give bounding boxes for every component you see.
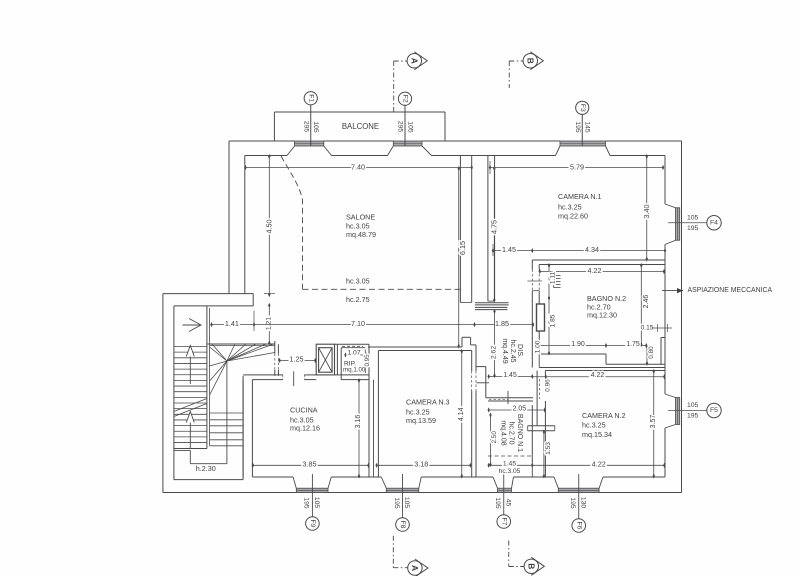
svg-text:mq.4.49: mq.4.49: [501, 338, 508, 363]
svg-text:F2: F2: [402, 95, 409, 103]
svg-text:1.21: 1.21: [265, 317, 272, 330]
svg-text:B: B: [526, 563, 536, 569]
svg-text:3.16: 3.16: [355, 415, 362, 429]
svg-text:B: B: [525, 58, 535, 64]
svg-text:0.15: 0.15: [641, 325, 654, 332]
svg-text:2.50: 2.50: [491, 431, 498, 444]
svg-text:mq.12.16: mq.12.16: [290, 424, 320, 433]
svg-text:A: A: [410, 565, 420, 571]
svg-text:hc.2.75: hc.2.75: [346, 295, 370, 304]
svg-text:105: 105: [687, 402, 699, 409]
svg-text:1.00: 1.00: [534, 340, 541, 353]
svg-text:hc.2.70: hc.2.70: [508, 422, 515, 445]
svg-text:BALCONE: BALCONE: [342, 122, 379, 131]
svg-text:130: 130: [579, 497, 586, 509]
svg-text:2.46: 2.46: [643, 295, 650, 309]
svg-text:1.45: 1.45: [503, 372, 517, 379]
svg-text:hc.3.25: hc.3.25: [558, 203, 582, 212]
svg-text:F9: F9: [309, 520, 316, 528]
svg-text:hc.3.05: hc.3.05: [499, 468, 521, 475]
svg-text:295: 295: [303, 121, 310, 133]
svg-text:hc.2.45: hc.2.45: [509, 340, 516, 363]
svg-text:mq.13.59: mq.13.59: [406, 416, 436, 425]
svg-text:hc.3.05: hc.3.05: [346, 277, 370, 286]
svg-text:105: 105: [403, 497, 410, 509]
svg-text:195: 195: [494, 497, 501, 509]
svg-text:1.75: 1.75: [626, 341, 640, 348]
svg-text:A: A: [409, 58, 419, 64]
svg-text:ASPIAZIONE MECCANICA: ASPIAZIONE MECCANICA: [688, 287, 773, 294]
svg-text:7.10: 7.10: [351, 319, 365, 328]
svg-text:0.80: 0.80: [648, 346, 655, 359]
svg-text:105: 105: [406, 121, 413, 133]
svg-text:0.95: 0.95: [364, 354, 371, 367]
svg-text:mq.15.34: mq.15.34: [582, 430, 612, 439]
svg-text:295: 295: [397, 121, 404, 133]
svg-text:1.11: 1.11: [549, 271, 556, 284]
svg-text:4.50: 4.50: [264, 220, 273, 234]
svg-text:mq.4.08: mq.4.08: [500, 420, 507, 445]
svg-text:mq.12.30: mq.12.30: [587, 310, 617, 319]
svg-text:CAMERA N.1: CAMERA N.1: [558, 192, 602, 201]
svg-text:1.85: 1.85: [495, 319, 509, 328]
svg-text:F1: F1: [307, 94, 314, 102]
svg-text:105: 105: [687, 215, 699, 222]
svg-text:3.18: 3.18: [414, 460, 428, 469]
svg-text:195: 195: [569, 497, 576, 509]
svg-text:F3: F3: [579, 104, 586, 112]
svg-text:2.05: 2.05: [513, 405, 527, 412]
svg-text:4.22: 4.22: [588, 266, 602, 275]
svg-text:2.62: 2.62: [490, 346, 497, 359]
svg-text:6.15: 6.15: [458, 241, 467, 255]
svg-text:h.2.30: h.2.30: [196, 464, 216, 473]
svg-text:mq.1.00: mq.1.00: [343, 367, 366, 374]
svg-text:45: 45: [504, 499, 511, 507]
svg-text:195: 195: [687, 225, 699, 232]
svg-text:F4: F4: [710, 219, 718, 226]
svg-text:195: 195: [303, 497, 310, 509]
svg-text:hc.3.25: hc.3.25: [582, 421, 606, 430]
svg-text:F6: F6: [575, 522, 582, 530]
svg-text:1.07: 1.07: [347, 349, 360, 356]
svg-text:mq.22.60: mq.22.60: [558, 212, 588, 221]
svg-text:4.34: 4.34: [585, 245, 599, 254]
svg-text:CAMERA N.3: CAMERA N.3: [406, 398, 450, 407]
svg-text:3.85: 3.85: [303, 460, 317, 469]
svg-text:195: 195: [574, 121, 581, 133]
svg-text:195: 195: [393, 497, 400, 509]
svg-text:3.40: 3.40: [642, 205, 651, 219]
svg-text:CUCINA: CUCINA: [290, 405, 318, 414]
svg-text:1.45: 1.45: [502, 245, 516, 254]
svg-text:5.79: 5.79: [570, 162, 584, 171]
svg-text:F8: F8: [399, 521, 406, 529]
svg-text:3.57: 3.57: [650, 415, 657, 429]
svg-text:1.41: 1.41: [225, 319, 239, 328]
svg-text:SALONE: SALONE: [346, 213, 375, 222]
svg-text:145: 145: [584, 121, 591, 133]
svg-text:1.85: 1.85: [549, 314, 556, 327]
svg-text:1.53: 1.53: [545, 442, 552, 455]
svg-text:195: 195: [687, 413, 699, 420]
svg-text:DIS.: DIS.: [516, 344, 525, 358]
svg-text:F5: F5: [710, 407, 718, 414]
svg-text:mq.48.79: mq.48.79: [346, 230, 376, 239]
svg-text:4.14: 4.14: [458, 407, 465, 421]
svg-text:105: 105: [313, 497, 320, 509]
svg-text:BAGNO N.1: BAGNO N.1: [516, 414, 523, 452]
svg-text:F7: F7: [500, 518, 507, 526]
svg-text:105: 105: [312, 121, 319, 133]
svg-text:7.40: 7.40: [351, 162, 365, 171]
svg-text:CAMERA N.2: CAMERA N.2: [582, 411, 626, 420]
svg-text:4.75: 4.75: [489, 220, 498, 234]
svg-text:1.25: 1.25: [290, 355, 304, 364]
svg-text:4.22: 4.22: [592, 460, 606, 469]
svg-text:0.96: 0.96: [545, 379, 552, 392]
svg-text:1.90: 1.90: [571, 341, 585, 348]
svg-text:4.22: 4.22: [591, 372, 605, 379]
svg-text:1.45: 1.45: [503, 461, 516, 468]
